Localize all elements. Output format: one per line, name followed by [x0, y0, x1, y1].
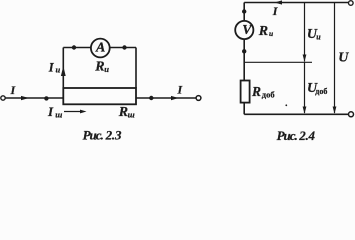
svg-text:доб: доб — [262, 90, 275, 100]
svg-text:R: R — [118, 105, 128, 120]
svg-text:2.3: 2.3 — [105, 128, 122, 142]
svg-text:R: R — [94, 60, 104, 75]
svg-text:и: и — [269, 29, 273, 38]
svg-text:Рис.: Рис. — [277, 128, 298, 142]
svg-text:R: R — [258, 24, 268, 39]
svg-text:V: V — [242, 23, 253, 38]
svg-text:ш: ш — [128, 109, 135, 119]
svg-text:A: A — [95, 41, 105, 56]
svg-text:Рис.: Рис. — [83, 128, 104, 142]
svg-text:и: и — [56, 65, 61, 75]
svg-text:и: и — [316, 33, 321, 42]
svg-text:2.4: 2.4 — [298, 128, 315, 142]
svg-text:доб: доб — [315, 87, 327, 96]
svg-text:I: I — [47, 104, 54, 119]
svg-text:U: U — [338, 50, 349, 65]
svg-text:и: и — [104, 64, 109, 74]
svg-text:R: R — [251, 84, 261, 99]
svg-text:ш: ш — [55, 109, 62, 119]
